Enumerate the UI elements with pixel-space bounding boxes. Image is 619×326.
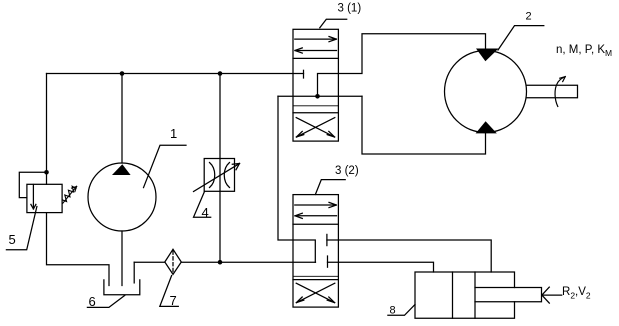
svg-text:7: 7	[170, 293, 177, 308]
motor 2 shaft	[527, 85, 578, 98]
label n,M,P,K_M	[556, 44, 612, 58]
svg-text:3 (2): 3 (2)	[335, 165, 359, 177]
wire throttle upper branch	[219, 74, 221, 192]
motor 2	[445, 49, 527, 134]
svg-text:2: 2	[526, 11, 532, 23]
wire top rail P	[47, 73, 304, 75]
label 6	[87, 294, 124, 309]
cylinder 8 body	[415, 272, 515, 318]
valve 3(2) top position arrow left	[295, 213, 337, 218]
valve 3(1) blocked port bar	[303, 70, 305, 78]
label 7	[160, 276, 179, 308]
relief valve 5 internal arrow	[31, 185, 36, 210]
svg-text:6: 6	[89, 294, 96, 309]
wire bottom rail filter to valve 3(2)	[181, 261, 315, 263]
valve 3(2) top position arrow right	[295, 202, 337, 207]
valve 3(1) bottom position crossed arrows	[296, 118, 335, 137]
valve 3(2) bottom position crossed arrows	[296, 283, 335, 302]
wire link valve 3(1) to valve 3(2)	[278, 96, 315, 262]
valve 3(2) body	[293, 195, 338, 308]
relief valve 5 spring	[62, 186, 76, 201]
wire tank right pipe	[133, 262, 135, 283]
node junction in valve 3(1)	[315, 94, 320, 99]
label 1	[144, 126, 187, 188]
load force arrow R2,V2	[542, 287, 562, 303]
label 3(1)	[320, 2, 362, 28]
wire pump pressure line	[121, 74, 123, 164]
node junction pump/top-rail	[120, 71, 125, 76]
wire through line A	[278, 95, 362, 97]
valve 3(2) blocked port bar lower	[327, 256, 329, 267]
node junction throttle/top-rail	[218, 71, 223, 76]
svg-text:5: 5	[9, 232, 16, 247]
wire left drop to relief valve	[46, 74, 48, 185]
motor 2 rotation arrow	[555, 77, 565, 107]
label 4	[194, 192, 211, 221]
pump 1	[88, 163, 156, 231]
throttle valve 4 restriction arcs	[210, 163, 230, 188]
label 5	[6, 207, 37, 250]
wire throttle lower branch	[219, 191, 221, 262]
throttle valve 4 body	[204, 159, 234, 192]
valve 3(1) body	[293, 29, 338, 141]
relief valve 5 adjustment arrow	[63, 186, 77, 203]
svg-text:1: 1	[170, 126, 177, 141]
filter 7	[165, 249, 182, 274]
svg-text:n, M, P, KM: n, M, P, KM	[556, 44, 612, 58]
cylinder 8 rod	[475, 288, 542, 302]
label 8	[388, 305, 415, 317]
node junction pilot line	[44, 170, 49, 175]
label R2,V2	[562, 286, 591, 301]
label 2	[498, 11, 544, 51]
valve 3(1) top position arrow left	[295, 48, 337, 53]
node junction throttle/bottom-rail	[218, 260, 223, 265]
wire motor loop lower	[362, 96, 486, 154]
wire pilot line of relief valve	[19, 172, 46, 197]
tank 6	[104, 280, 140, 295]
wire pump suction line	[121, 231, 123, 286]
cylinder 8 piston	[453, 272, 476, 318]
wire valve 3(2) to cylinder piston side	[328, 262, 434, 272]
label 3(2)	[315, 165, 358, 194]
valve 3(2) blocked port bar upper	[326, 234, 328, 245]
wire tank to filter	[134, 261, 165, 263]
throttle valve 4 adjustment arrow	[194, 164, 240, 192]
wire valve 3(2) to cylinder rod side	[327, 240, 491, 272]
valve 3(1) top position arrow right	[295, 37, 337, 42]
svg-text:3 (1): 3 (1)	[338, 2, 362, 14]
wire relief valve to tank	[47, 213, 110, 286]
valve 3(1) internal passage	[318, 74, 339, 97]
relief valve 5 body	[27, 184, 62, 212]
wire motor loop upper	[338, 34, 485, 74]
